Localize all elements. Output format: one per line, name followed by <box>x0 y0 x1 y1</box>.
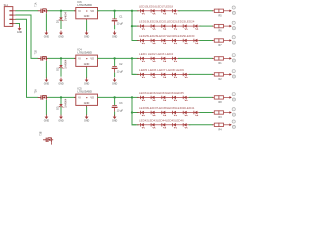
wire bus block1 rows <box>132 11 136 41</box>
svg-text:GND: GND <box>44 120 50 123</box>
wire IC4 VO to LED bus <box>98 57 133 59</box>
node junction capacitor C3 <box>113 96 115 98</box>
svg-text:GND: GND <box>58 83 64 86</box>
svg-text:L78L05ABD: L78L05ABD <box>77 90 92 94</box>
node bus3 row6 junction <box>131 96 133 98</box>
LED LED21 <box>158 24 169 29</box>
LED LED36 <box>137 111 148 116</box>
wire bus to R1 string <box>132 57 138 59</box>
LED LED29 <box>180 39 191 44</box>
svg-text:LED5 LED6 LED7 LED8 LED9: LED5 LED6 LED7 LED8 LED9 <box>139 69 185 72</box>
svg-text:C2: C2 <box>119 63 123 66</box>
LED LED33 <box>158 96 169 101</box>
node junction diode D2 <box>60 57 62 59</box>
LED LED1 <box>137 57 148 62</box>
zener diode D2 <box>56 58 68 76</box>
transistor T1B <box>35 50 48 61</box>
ground at IC6 <box>84 31 90 39</box>
zener diode D1 <box>56 11 68 29</box>
LED LED8 <box>169 73 180 78</box>
wire IC4 GND to ground <box>86 68 88 78</box>
svg-text:10 µF: 10 µF <box>117 70 124 73</box>
wire R4 string to resistor R4 <box>189 124 212 126</box>
ground at C1 <box>112 31 118 39</box>
wire bus to R3 string <box>132 112 138 114</box>
LED LED44 <box>158 123 169 128</box>
wire bus to R7 string <box>132 40 138 42</box>
svg-text:R5: R5 <box>218 14 222 17</box>
svg-text:LED1 LED2 LED3 LED4: LED1 LED2 LED3 LED4 <box>139 53 174 56</box>
LED LED18 <box>169 9 180 14</box>
wire T2A gate to ground <box>45 100 47 115</box>
wire R7 string to resistor R7 <box>200 40 213 42</box>
zener diode D3 <box>56 97 68 115</box>
wire R3 string to resistor R3 <box>200 112 213 114</box>
svg-text:LED42LED43LED44LED45LED46: LED42LED43LED44LED45LED46 <box>139 119 184 122</box>
LED LED31 <box>137 96 148 101</box>
LED LED19 <box>137 24 148 29</box>
svg-text:D1: D1 <box>56 19 60 23</box>
transistor T1A <box>34 2 48 13</box>
svg-text:R3: R3 <box>218 116 222 119</box>
svg-text:GND: GND <box>84 15 90 18</box>
LED LED20 <box>148 24 159 29</box>
wire R5 string to resistor R5 <box>179 10 213 12</box>
svg-text:GND: GND <box>112 83 118 86</box>
capacitor C1 <box>112 11 124 30</box>
LED LED15 <box>137 9 148 14</box>
svg-text:GND: GND <box>112 36 118 39</box>
node junction diode D1 <box>60 10 62 12</box>
LED LED22 <box>169 24 180 29</box>
transistor T2A <box>34 89 48 100</box>
svg-text:LED31LED32LED33LED34LED35: LED31LED32LED33LED34LED35 <box>139 92 184 95</box>
svg-text:VO: VO <box>90 57 94 60</box>
node junction capacitor C1 <box>113 10 115 12</box>
svg-text:T1B: T1B <box>35 50 37 55</box>
wire T1A gate to ground <box>45 13 47 31</box>
node junction capacitor C2 <box>113 57 115 59</box>
LED LED26 <box>148 39 159 44</box>
node bus2 row4 junction <box>131 57 133 59</box>
wire T2B gate stub <box>51 142 53 144</box>
wire IC6 GND to ground <box>86 20 88 31</box>
wire SL1 pin4 to ground <box>16 24 20 27</box>
LED LED27 <box>158 39 169 44</box>
SL1 pin 1 <box>9 10 12 11</box>
SL1 pin 4 <box>9 23 12 24</box>
LED LED2 <box>148 57 159 62</box>
svg-text:GND: GND <box>44 36 50 39</box>
svg-text:L78L05ABD: L78L05ABD <box>77 51 92 55</box>
svg-text:GND: GND <box>58 36 64 39</box>
node bus1 row2 junction <box>131 25 133 27</box>
LED LED17 <box>158 9 169 14</box>
LED LED16 <box>148 9 159 14</box>
capacitor C3 <box>112 97 124 116</box>
LED LED40 <box>180 111 191 116</box>
svg-text:R2: R2 <box>218 78 222 81</box>
svg-text:LED19LED20LED21LED22LED23LED24: LED19LED20LED21LED22LED23LED24 <box>139 21 195 24</box>
SL1 pin 3 <box>9 19 12 20</box>
svg-text:R6: R6 <box>218 30 222 33</box>
LED LED43 <box>148 123 159 128</box>
voltage regulator IC4 <box>74 48 99 68</box>
ground at T1B <box>44 78 50 86</box>
wire T1A to IC6 VI <box>48 10 76 12</box>
LED LED9 <box>180 73 191 78</box>
svg-text:GND: GND <box>84 63 90 66</box>
wire bus block3 rows <box>132 97 136 124</box>
resistor pair R2 <box>212 70 235 82</box>
svg-text:GND: GND <box>84 120 90 123</box>
LED LED46 <box>180 123 191 128</box>
svg-text:T2B: T2B <box>41 131 43 136</box>
wire R2 string to resistor R2 <box>189 73 212 75</box>
LED LED24 <box>190 24 201 29</box>
wire SL1 pin3 to T3 <box>16 19 38 97</box>
LED LED37 <box>148 111 159 116</box>
LED LED39 <box>169 111 180 116</box>
LED LED6 <box>148 73 159 78</box>
wire bus1 to row2 <box>132 25 136 27</box>
resistor pair R8 <box>212 93 235 105</box>
LED LED7 <box>158 73 169 78</box>
LED LED41 <box>190 111 201 116</box>
svg-text:LED36LED37LED38LED39LED40LED41: LED36LED37LED38LED39LED40LED41 <box>139 107 195 110</box>
wire R8 string to resistor R8 <box>189 96 212 98</box>
wire bus block2 rows <box>132 58 136 74</box>
svg-text:1N4004: 1N4004 <box>64 98 68 108</box>
LED LED23 <box>180 24 191 29</box>
svg-text:10 µF: 10 µF <box>117 23 124 26</box>
LED LED42 <box>137 123 148 128</box>
svg-text:10 µF: 10 µF <box>117 109 124 112</box>
ground at D2 <box>58 78 64 86</box>
svg-text:R4: R4 <box>218 128 222 131</box>
svg-text:D2: D2 <box>56 67 60 71</box>
LED LED4 <box>169 57 180 62</box>
ground at D1 <box>58 31 64 39</box>
wire bus to R5 string <box>132 10 138 12</box>
resistor pair R4 <box>212 120 235 131</box>
wire bus to R8 string <box>132 96 138 98</box>
svg-text:GND: GND <box>84 83 90 86</box>
wire bus to R6 string <box>132 25 138 27</box>
svg-text:GND: GND <box>84 102 90 105</box>
wire R1 string to resistor R1 <box>179 57 213 59</box>
ground at D3 <box>58 115 64 123</box>
ground at C2 <box>112 78 118 86</box>
svg-text:VO: VO <box>90 96 94 99</box>
capacitor C2 <box>112 58 124 77</box>
resistor pair R3 <box>212 108 235 120</box>
LED LED34 <box>169 96 180 101</box>
svg-text:GND: GND <box>58 120 64 123</box>
SL1 pin 2 <box>9 15 12 16</box>
ground at SL1 pin4 <box>17 26 23 34</box>
wire T1B gate to ground <box>45 61 47 78</box>
svg-text:VO: VO <box>90 10 94 13</box>
ground at T1A <box>44 31 50 39</box>
LED LED38 <box>158 111 169 116</box>
svg-text:GND: GND <box>17 31 23 34</box>
resistor pair R5 <box>212 6 235 18</box>
svg-text:C1: C1 <box>119 15 123 18</box>
node bus3 row7 junction <box>131 111 133 113</box>
svg-text:LED25LED26LED27LED28LED29LED30: LED25LED26LED27LED28LED29LED30 <box>139 35 195 38</box>
connector SL1 <box>4 4 16 27</box>
wire IC5 VO to LED bus <box>98 96 133 98</box>
node bus1 row1 junction <box>131 10 133 12</box>
svg-text:T1A: T1A <box>34 2 37 7</box>
svg-text:GND: GND <box>84 36 90 39</box>
svg-text:C3: C3 <box>119 102 123 105</box>
svg-text:GND: GND <box>44 83 50 86</box>
wire bus to R4 string <box>132 124 138 126</box>
svg-text:VI: VI <box>78 96 81 99</box>
svg-text:VI: VI <box>78 57 81 60</box>
resistor pair R6 <box>212 21 235 33</box>
wire R6 string to resistor R6 <box>200 25 213 27</box>
LED LED30 <box>190 39 201 44</box>
svg-text:GND: GND <box>112 120 118 123</box>
LED LED32 <box>148 96 159 101</box>
svg-text:R8: R8 <box>218 101 222 104</box>
LED LED25 <box>137 39 148 44</box>
wire SL1 pin1 to T1 <box>16 10 38 12</box>
voltage regulator IC6 <box>74 0 99 20</box>
voltage regulator IC5 <box>74 87 99 107</box>
svg-text:T2A: T2A <box>34 89 37 94</box>
svg-text:D3: D3 <box>56 106 60 110</box>
LED LED3 <box>158 57 169 62</box>
svg-text:LED15LED16LED17LED18: LED15LED16LED17LED18 <box>139 5 174 8</box>
ground at IC4 <box>84 78 90 86</box>
resistor pair R1 <box>212 54 235 66</box>
wire T1B to IC4 VI <box>48 57 76 59</box>
wire bus to R2 string <box>132 73 138 75</box>
ground at IC5 <box>84 115 90 123</box>
svg-text:L78L05ABD: L78L05ABD <box>77 3 92 7</box>
LED LED45 <box>169 123 180 128</box>
LED LED35 <box>180 96 191 101</box>
wire SL1 pin2 to T2 <box>16 15 38 58</box>
resistor pair R7 <box>212 36 235 47</box>
LED LED5 <box>137 73 148 78</box>
wire IC5 GND to ground <box>86 107 88 115</box>
wire T2A to IC5 VI <box>48 96 76 98</box>
svg-text:R7: R7 <box>218 44 222 47</box>
wire IC6 VO to LED bus <box>98 10 133 12</box>
svg-text:1N4004: 1N4004 <box>64 12 68 22</box>
ground at T2A <box>44 115 50 123</box>
node junction diode D3 <box>60 96 62 98</box>
ground at C3 <box>112 115 118 123</box>
transistor T2B (spare) <box>41 131 54 142</box>
LED LED28 <box>169 39 180 44</box>
wire bus3 to row7 <box>132 112 136 114</box>
svg-text:VI: VI <box>78 10 81 13</box>
svg-text:1N4004: 1N4004 <box>64 59 68 69</box>
svg-text:R1: R1 <box>218 62 222 65</box>
